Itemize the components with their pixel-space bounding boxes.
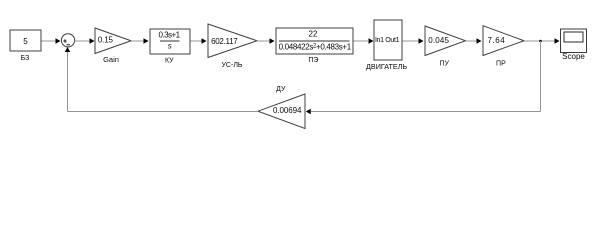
svg-text:0.048422s2+0.483s+1: 0.048422s2+0.483s+1 <box>279 42 352 51</box>
transfer function КУ (0.3s+1)/s <box>150 29 190 65</box>
svg-text:ПР: ПР <box>496 60 506 67</box>
wire feedback horizontal left segment from ДУ <box>68 111 259 113</box>
svg-text:УС-ЛЬ: УС-ЛЬ <box>221 62 242 69</box>
subsystem ДВИГАТЕЛЬ In1 Out1 <box>366 20 407 71</box>
svg-text:0.045: 0.045 <box>428 36 449 45</box>
wire ПЭ to ДВИГАТЕЛЬ <box>354 38 374 44</box>
svg-text:22: 22 <box>309 30 318 39</box>
wire ДВИГАТЕЛЬ to ПУ <box>403 38 424 44</box>
wire feedback horizontal right segment to ДУ <box>306 109 541 115</box>
gain Gain 0.15 <box>95 28 131 64</box>
wire УС-ЛЬ to ПЭ <box>257 38 275 44</box>
gain УС-ЛЬ 602.117 <box>208 24 257 69</box>
svg-text:s: s <box>168 41 172 50</box>
gain ДУ 0.00694 (points left) <box>258 86 305 128</box>
transfer function ПЭ 22/(0.048422s^2+0.483s+1) <box>276 28 353 64</box>
wire feedback vertical rise to sum <box>65 47 71 112</box>
svg-text:In1 Out1: In1 Out1 <box>375 37 400 44</box>
svg-text:602.117: 602.117 <box>211 37 238 46</box>
wire feedback vertical drop from junction <box>540 41 542 112</box>
junction node after ПР <box>539 40 542 43</box>
svg-text:Gain: Gain <box>103 55 119 64</box>
gain ПУ 0.045 <box>425 26 466 67</box>
gain ПР 7.64 <box>483 26 524 68</box>
wire sum to Gain <box>75 38 95 44</box>
svg-text:ПЭ: ПЭ <box>308 57 318 64</box>
wire КУ to УС-ЛЬ <box>191 38 207 44</box>
svg-text:БЗ: БЗ <box>21 55 30 62</box>
svg-text:0.3s+1: 0.3s+1 <box>159 31 181 40</box>
constant block БЗ <box>10 30 41 62</box>
svg-text:0.00694: 0.00694 <box>273 106 302 115</box>
svg-text:5: 5 <box>23 37 28 46</box>
scope Scope <box>561 29 587 61</box>
wire ПР to Scope <box>524 38 560 44</box>
svg-text:Scope: Scope <box>562 52 585 61</box>
svg-text:ПУ: ПУ <box>439 60 449 67</box>
wire ПУ to ПР <box>466 38 482 44</box>
wire Gain to КУ <box>131 38 149 44</box>
wire БЗ to sum <box>42 38 61 44</box>
svg-text:ДУ: ДУ <box>276 86 286 93</box>
svg-text:0.15: 0.15 <box>98 35 114 44</box>
svg-text:7.64: 7.64 <box>487 36 505 45</box>
svg-text:КУ: КУ <box>165 58 174 65</box>
sum junction <box>61 34 74 47</box>
svg-text:ДВИГАТЕЛЬ: ДВИГАТЕЛЬ <box>366 62 407 71</box>
